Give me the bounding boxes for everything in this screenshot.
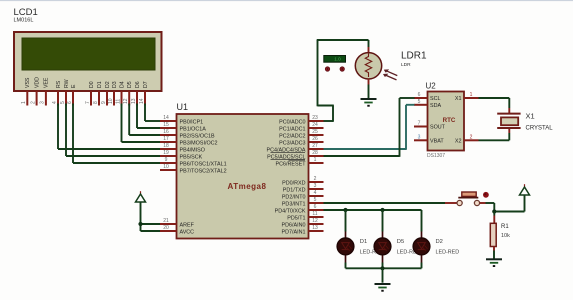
svg-text:D2: D2 (105, 81, 111, 88)
svg-text:PC2/ADC2: PC2/ADC2 (279, 133, 305, 139)
svg-text:E: E (71, 84, 77, 88)
svg-text:12: 12 (312, 218, 318, 224)
svg-text:4: 4 (314, 190, 317, 196)
svg-text:7: 7 (418, 121, 421, 127)
svg-text:D2: D2 (436, 239, 443, 245)
svg-text:18: 18 (163, 143, 169, 149)
svg-text:D6: D6 (135, 81, 141, 88)
svg-text:PC0/ADC0: PC0/ADC0 (279, 119, 305, 125)
svg-text:14: 14 (139, 98, 145, 104)
svg-text:R1: R1 (501, 224, 509, 230)
svg-text:PD6/AIN0: PD6/AIN0 (282, 222, 306, 228)
svg-text:LM016L: LM016L (14, 18, 34, 24)
svg-text:PD4/T0/XCK: PD4/T0/XCK (275, 208, 306, 214)
svg-text:SDA: SDA (430, 103, 441, 109)
svg-text:PB0/ICP1: PB0/ICP1 (180, 119, 204, 125)
svg-text:D0: D0 (89, 81, 95, 88)
svg-text:CRYSTAL: CRYSTAL (526, 125, 554, 131)
svg-text:PB1/OC1A: PB1/OC1A (180, 126, 207, 132)
svg-text:X1: X1 (526, 111, 535, 120)
svg-text:3: 3 (418, 134, 421, 140)
svg-text:SOUT: SOUT (430, 125, 446, 131)
svg-text:U1: U1 (177, 102, 189, 112)
svg-text:26: 26 (312, 136, 318, 142)
svg-text:SCL: SCL (430, 96, 441, 102)
svg-text:VDD: VDD (34, 77, 40, 88)
svg-text:LDR1: LDR1 (401, 51, 427, 62)
svg-text:17: 17 (163, 136, 169, 142)
svg-text:20: 20 (163, 225, 169, 231)
svg-text:PD1/TXD: PD1/TXD (283, 187, 306, 193)
svg-text:1.0: 1.0 (334, 57, 341, 62)
svg-text:X1: X1 (455, 96, 462, 102)
svg-text:LDR: LDR (401, 62, 411, 68)
svg-text:RS: RS (56, 80, 62, 88)
svg-text:7: 7 (85, 101, 91, 104)
svg-text:27: 27 (312, 143, 318, 149)
svg-text:2: 2 (314, 176, 317, 182)
svg-text:4: 4 (52, 101, 58, 104)
svg-text:16: 16 (163, 129, 169, 135)
svg-text:PD2/INT0: PD2/INT0 (282, 194, 306, 200)
svg-text:1: 1 (314, 157, 317, 163)
svg-text:13: 13 (131, 98, 137, 104)
svg-text:9: 9 (101, 101, 107, 104)
svg-text:5: 5 (418, 99, 421, 105)
svg-text:6: 6 (314, 204, 317, 210)
svg-text:23: 23 (312, 115, 318, 121)
svg-text:PB3/MOSI/OC2: PB3/MOSI/OC2 (180, 140, 218, 146)
svg-text:PB7/TOSC2/XTAL2: PB7/TOSC2/XTAL2 (180, 168, 227, 174)
svg-text:1: 1 (470, 92, 473, 98)
svg-text:10k: 10k (501, 233, 510, 239)
svg-text:RTC: RTC (443, 117, 456, 124)
svg-text:DS1307: DS1307 (427, 153, 445, 159)
svg-text:PD0/RXD: PD0/RXD (282, 180, 305, 186)
svg-text:PC6/RESET: PC6/RESET (276, 161, 307, 167)
svg-text:25: 25 (312, 129, 318, 135)
svg-text:AREF: AREF (180, 222, 195, 228)
svg-text:3: 3 (40, 101, 46, 104)
svg-text:8: 8 (93, 101, 99, 104)
svg-text:LCD1: LCD1 (14, 7, 38, 18)
svg-text:PC1/ADC1: PC1/ADC1 (279, 126, 305, 132)
svg-text:3: 3 (314, 183, 317, 189)
svg-text:12: 12 (123, 98, 129, 104)
svg-text:13: 13 (312, 225, 318, 231)
svg-text:2: 2 (30, 101, 36, 104)
svg-text:D5: D5 (127, 81, 133, 88)
svg-text:14: 14 (163, 115, 169, 121)
svg-text:10: 10 (108, 98, 114, 104)
svg-text:10: 10 (163, 164, 169, 170)
svg-text:PB4/MISO: PB4/MISO (180, 147, 205, 153)
svg-text:11: 11 (115, 99, 121, 104)
svg-text:D3: D3 (112, 81, 118, 88)
svg-text:6: 6 (418, 92, 421, 98)
svg-text:11: 11 (312, 211, 317, 217)
svg-text:PD7/AIN1: PD7/AIN1 (282, 229, 306, 235)
svg-text:24: 24 (312, 122, 318, 128)
svg-text:PB6/TOSC1/XTAL1: PB6/TOSC1/XTAL1 (180, 161, 227, 167)
svg-text:5: 5 (60, 101, 66, 104)
svg-text:PD3/INT1: PD3/INT1 (282, 201, 306, 207)
svg-text:D1: D1 (97, 81, 103, 88)
svg-text:ATmega8: ATmega8 (228, 182, 267, 191)
svg-text:PB2/SS/OC1B: PB2/SS/OC1B (180, 133, 215, 139)
svg-text:VBAT: VBAT (430, 138, 444, 144)
svg-text:U2: U2 (426, 82, 437, 91)
svg-text:VEE: VEE (44, 77, 50, 88)
svg-text:D5: D5 (397, 239, 404, 245)
svg-text:PB5/SCK: PB5/SCK (180, 154, 203, 160)
svg-text:LED-RED: LED-RED (436, 250, 460, 256)
svg-text:28: 28 (312, 150, 318, 156)
svg-text:2: 2 (470, 134, 473, 140)
svg-text:PD5/T1: PD5/T1 (287, 215, 305, 221)
svg-text:1: 1 (21, 101, 27, 104)
svg-text:AVCC: AVCC (180, 229, 195, 235)
svg-text:19: 19 (163, 150, 169, 156)
svg-text:5: 5 (314, 197, 317, 203)
svg-text:D4: D4 (119, 81, 125, 88)
svg-text:9: 9 (165, 157, 168, 163)
svg-text:D7: D7 (143, 81, 149, 88)
svg-text:21: 21 (163, 218, 169, 224)
svg-text:6: 6 (67, 101, 73, 104)
svg-text:VSS: VSS (25, 77, 31, 88)
svg-text:D1: D1 (360, 239, 367, 245)
svg-text:X2: X2 (455, 138, 462, 144)
svg-text:15: 15 (163, 122, 169, 128)
svg-text:PC3/ADC3: PC3/ADC3 (279, 140, 305, 146)
svg-text:RW: RW (64, 79, 70, 88)
